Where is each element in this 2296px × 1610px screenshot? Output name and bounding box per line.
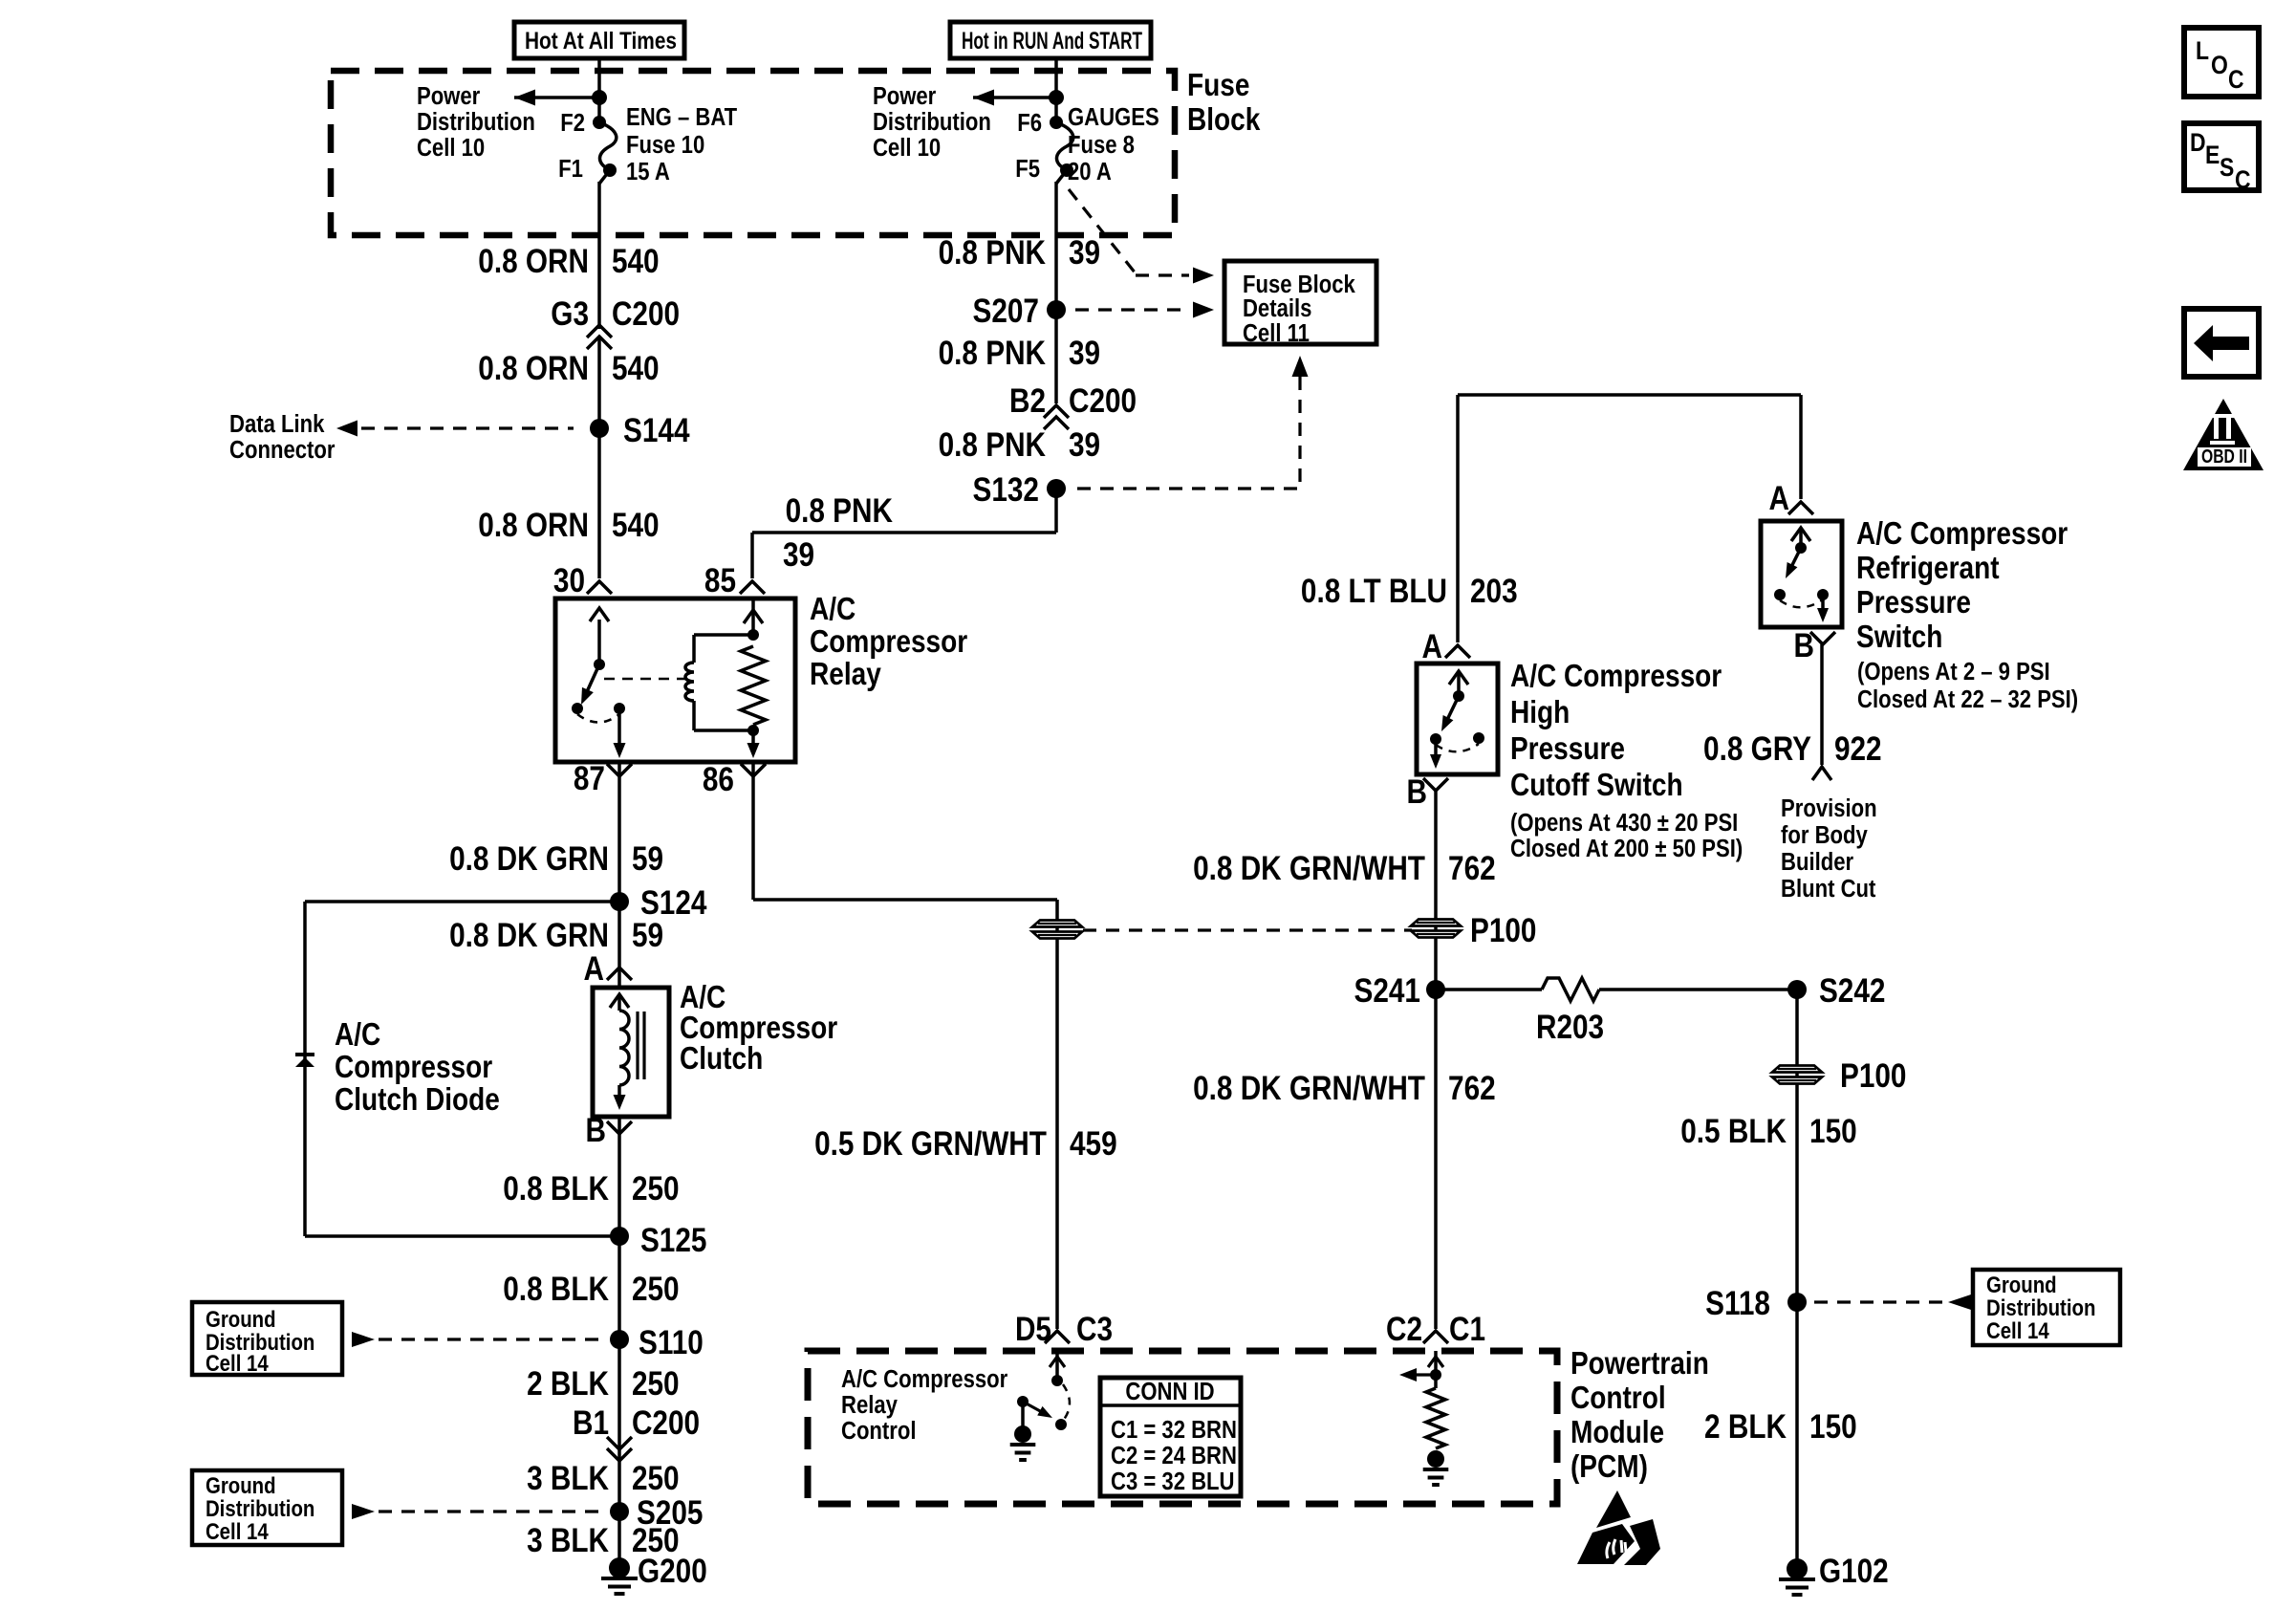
- svg-text:0.8 DK GRN: 0.8 DK GRN: [449, 917, 609, 954]
- svg-text:C3: C3: [1076, 1311, 1113, 1348]
- svg-text:Power: Power: [417, 82, 481, 110]
- svg-text:S118: S118: [1705, 1285, 1770, 1322]
- svg-text:R203: R203: [1536, 1009, 1604, 1046]
- svg-text:Power: Power: [873, 82, 937, 110]
- svg-text:0.8 DK GRN/WHT: 0.8 DK GRN/WHT: [1193, 850, 1425, 887]
- svg-text:CONN ID: CONN ID: [1125, 1378, 1214, 1405]
- svg-text:540: 540: [612, 243, 660, 280]
- svg-text:(Opens At 2 – 9 PSI: (Opens At 2 – 9 PSI: [1857, 658, 2050, 685]
- svg-text:762: 762: [1448, 850, 1496, 887]
- svg-text:for Body: for Body: [1781, 821, 1868, 849]
- svg-text:Distribution: Distribution: [417, 108, 535, 136]
- svg-text:Pressure: Pressure: [1856, 585, 1971, 620]
- svg-text:Cutoff Switch: Cutoff Switch: [1510, 768, 1683, 803]
- svg-text:(Opens At 430 ± 20 PSI: (Opens At 430 ± 20 PSI: [1510, 809, 1738, 837]
- svg-text:0.8 DK GRN: 0.8 DK GRN: [449, 840, 609, 878]
- svg-text:C200: C200: [632, 1404, 700, 1442]
- svg-text:Cell 14: Cell 14: [1986, 1317, 2049, 1343]
- svg-text:87: 87: [574, 760, 605, 797]
- svg-text:762: 762: [1448, 1070, 1496, 1107]
- svg-text:S132: S132: [973, 471, 1039, 509]
- svg-text:3 BLK: 3 BLK: [527, 1460, 609, 1497]
- svg-text:Hot At All Times: Hot At All Times: [525, 28, 677, 54]
- svg-text:Connector: Connector: [229, 436, 336, 464]
- svg-text:0.8 BLK: 0.8 BLK: [503, 1271, 609, 1308]
- svg-text:A/C Compressor: A/C Compressor: [1856, 516, 2068, 552]
- svg-text:250: 250: [632, 1271, 680, 1308]
- svg-text:B: B: [1793, 627, 1813, 664]
- svg-text:0.8 BLK: 0.8 BLK: [503, 1170, 609, 1207]
- svg-text:203: 203: [1470, 573, 1518, 610]
- svg-text:0.8 PNK: 0.8 PNK: [939, 426, 1047, 464]
- svg-text:Compressor: Compressor: [335, 1050, 492, 1085]
- svg-text:39: 39: [1069, 335, 1100, 372]
- svg-text:Refrigerant: Refrigerant: [1856, 551, 2000, 586]
- svg-text:Hot in RUN And START: Hot in RUN And START: [962, 28, 1142, 54]
- svg-text:Closed At 22 – 32 PSI): Closed At 22 – 32 PSI): [1857, 685, 2078, 713]
- svg-text:Compressor: Compressor: [810, 624, 967, 660]
- svg-text:Cell 10: Cell 10: [873, 134, 941, 162]
- svg-text:Relay: Relay: [841, 1391, 898, 1419]
- svg-text:Ground: Ground: [206, 1306, 276, 1332]
- svg-text:S124: S124: [640, 884, 706, 922]
- svg-text:C: C: [2235, 165, 2251, 194]
- svg-text:250: 250: [632, 1170, 680, 1207]
- svg-text:0.8 ORN: 0.8 ORN: [478, 243, 589, 280]
- svg-text:Pressure: Pressure: [1510, 731, 1625, 767]
- svg-text:Provision: Provision: [1781, 794, 1877, 822]
- svg-text:F5: F5: [1015, 155, 1040, 183]
- svg-text:459: 459: [1070, 1125, 1117, 1163]
- svg-text:Relay: Relay: [810, 657, 881, 692]
- svg-text:Block: Block: [1187, 102, 1261, 138]
- svg-text:86: 86: [703, 761, 734, 798]
- svg-text:B: B: [586, 1112, 606, 1149]
- svg-text:G102: G102: [1819, 1553, 1889, 1590]
- svg-text:OBD II: OBD II: [2201, 446, 2247, 468]
- svg-text:2 BLK: 2 BLK: [1704, 1408, 1787, 1446]
- svg-text:Powertrain: Powertrain: [1570, 1346, 1709, 1382]
- svg-text:P100: P100: [1840, 1057, 1906, 1095]
- svg-text:C1 = 32 BRN: C1 = 32 BRN: [1111, 1416, 1237, 1444]
- svg-text:Details: Details: [1243, 294, 1311, 322]
- svg-text:150: 150: [1809, 1408, 1857, 1446]
- svg-text:High: High: [1510, 695, 1570, 730]
- svg-text:Control: Control: [1570, 1381, 1666, 1416]
- svg-text:Closed At 200 ± 50 PSI): Closed At 200 ± 50 PSI): [1510, 835, 1743, 862]
- svg-text:922: 922: [1834, 730, 1882, 768]
- svg-text:A/C Compressor: A/C Compressor: [841, 1365, 1008, 1393]
- svg-text:S207: S207: [973, 293, 1039, 330]
- svg-text:S144: S144: [623, 412, 689, 449]
- svg-text:0.8 ORN: 0.8 ORN: [478, 350, 589, 387]
- svg-text:C2 = 24 BRN: C2 = 24 BRN: [1111, 1442, 1237, 1469]
- svg-text:85: 85: [704, 562, 736, 599]
- svg-text:G3: G3: [551, 295, 589, 333]
- svg-text:540: 540: [612, 507, 660, 544]
- svg-text:Distribution: Distribution: [873, 108, 991, 136]
- svg-text:A: A: [583, 950, 603, 988]
- svg-text:20 A: 20 A: [1068, 158, 1112, 185]
- svg-text:Ground: Ground: [1986, 1272, 2057, 1297]
- svg-text:0.8 PNK: 0.8 PNK: [786, 492, 894, 530]
- svg-text:A: A: [1769, 480, 1789, 517]
- svg-text:D: D: [2190, 128, 2206, 157]
- svg-text:0.5 BLK: 0.5 BLK: [1680, 1113, 1787, 1150]
- svg-text:P100: P100: [1470, 912, 1536, 949]
- svg-text:0.8 ORN: 0.8 ORN: [478, 507, 589, 544]
- svg-text:250: 250: [632, 1460, 680, 1497]
- svg-text:540: 540: [612, 350, 660, 387]
- svg-text:59: 59: [632, 840, 663, 878]
- svg-text:39: 39: [783, 536, 814, 574]
- svg-text:Cell 10: Cell 10: [417, 134, 485, 162]
- svg-text:Ground: Ground: [206, 1472, 276, 1498]
- svg-text:150: 150: [1809, 1113, 1857, 1150]
- svg-text:Distribution: Distribution: [1986, 1295, 2095, 1320]
- svg-text:E: E: [2205, 141, 2220, 169]
- svg-text:F2: F2: [560, 109, 585, 137]
- svg-text:0.8 PNK: 0.8 PNK: [939, 234, 1047, 272]
- svg-text:S110: S110: [639, 1324, 704, 1361]
- svg-text:B: B: [1407, 773, 1427, 811]
- svg-text:3 BLK: 3 BLK: [527, 1522, 609, 1559]
- svg-text:Cell 14: Cell 14: [206, 1518, 269, 1544]
- svg-text:ENG – BAT: ENG – BAT: [626, 103, 737, 131]
- svg-text:A/C: A/C: [335, 1017, 380, 1053]
- svg-text:Fuse 10: Fuse 10: [626, 131, 704, 159]
- svg-text:0.8 LT BLU: 0.8 LT BLU: [1301, 573, 1447, 610]
- svg-text:A/C Compressor: A/C Compressor: [1510, 659, 1722, 694]
- svg-text:C1: C1: [1449, 1311, 1485, 1348]
- svg-text:B1: B1: [573, 1404, 609, 1442]
- svg-text:Builder: Builder: [1781, 848, 1854, 876]
- svg-text:0.8 DK GRN/WHT: 0.8 DK GRN/WHT: [1193, 1070, 1425, 1107]
- svg-text:Module: Module: [1570, 1415, 1664, 1450]
- svg-text:2 BLK: 2 BLK: [527, 1365, 609, 1403]
- svg-text:Control: Control: [841, 1417, 916, 1445]
- svg-text:C200: C200: [612, 295, 680, 333]
- svg-text:C3 = 32 BLU: C3 = 32 BLU: [1111, 1468, 1234, 1495]
- svg-text:15 A: 15 A: [626, 158, 670, 185]
- svg-text:(PCM): (PCM): [1570, 1449, 1648, 1485]
- svg-text:S: S: [2220, 153, 2234, 182]
- svg-text:0.5 DK GRN/WHT: 0.5 DK GRN/WHT: [814, 1125, 1047, 1163]
- svg-text:0.8 GRY: 0.8 GRY: [1703, 730, 1811, 768]
- svg-text:59: 59: [632, 917, 663, 954]
- svg-text:F1: F1: [558, 155, 583, 183]
- svg-text:Data Link: Data Link: [229, 410, 325, 438]
- svg-text:Distribution: Distribution: [206, 1495, 314, 1521]
- svg-text:39: 39: [1069, 234, 1100, 272]
- svg-text:S242: S242: [1819, 972, 1885, 1010]
- svg-text:A: A: [1422, 628, 1442, 665]
- svg-text:B2: B2: [1009, 382, 1046, 420]
- svg-text:L: L: [2196, 36, 2209, 65]
- svg-text:C200: C200: [1069, 382, 1137, 420]
- svg-text:Blunt Cut: Blunt Cut: [1781, 875, 1875, 903]
- svg-text:0.8 PNK: 0.8 PNK: [939, 335, 1047, 372]
- svg-text:GAUGES: GAUGES: [1068, 103, 1159, 131]
- svg-text:Fuse 8: Fuse 8: [1068, 131, 1135, 159]
- svg-text:S241: S241: [1354, 972, 1420, 1010]
- svg-text:Switch: Switch: [1856, 620, 1942, 655]
- svg-text:O: O: [2211, 51, 2228, 79]
- svg-text:30: 30: [553, 562, 585, 599]
- svg-text:A/C: A/C: [810, 592, 856, 627]
- svg-text:39: 39: [1069, 426, 1100, 464]
- svg-text:Clutch Diode: Clutch Diode: [335, 1082, 500, 1118]
- svg-text:Cell 14: Cell 14: [206, 1350, 269, 1376]
- svg-text:F6: F6: [1017, 109, 1042, 137]
- svg-text:G200: G200: [638, 1553, 707, 1590]
- svg-text:C: C: [2228, 65, 2244, 94]
- svg-text:250: 250: [632, 1365, 680, 1403]
- svg-text:C2: C2: [1386, 1311, 1422, 1348]
- svg-text:Cell 11: Cell 11: [1243, 319, 1310, 347]
- svg-text:Fuse: Fuse: [1187, 68, 1249, 103]
- svg-text:Clutch: Clutch: [680, 1041, 763, 1077]
- svg-text:S125: S125: [640, 1222, 706, 1259]
